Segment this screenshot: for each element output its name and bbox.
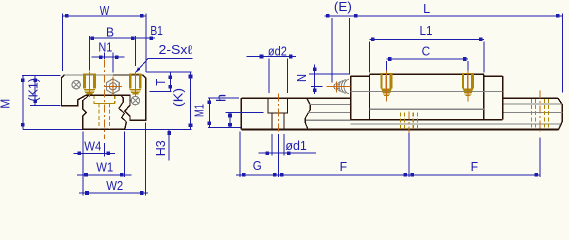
svg-text:(K1): (K1) — [26, 78, 40, 102]
svg-text:G: G — [253, 159, 262, 173]
svg-text:(K): (K) — [171, 88, 185, 107]
svg-text:C: C — [422, 45, 431, 59]
svg-text:F: F — [471, 160, 479, 174]
svg-text:N: N — [295, 74, 309, 82]
svg-text:h: h — [214, 94, 228, 102]
svg-text:H3: H3 — [154, 140, 168, 156]
svg-text:W: W — [100, 4, 110, 18]
svg-text:B: B — [106, 26, 114, 40]
svg-text:2-Sxℓ: 2-Sxℓ — [159, 43, 193, 57]
svg-text:(E): (E) — [334, 0, 352, 14]
svg-text:M: M — [0, 99, 13, 109]
svg-text:T: T — [154, 78, 168, 85]
svg-text:ød1: ød1 — [285, 139, 307, 153]
svg-text:B1: B1 — [150, 24, 163, 38]
svg-text:L: L — [423, 2, 430, 16]
svg-text:L1: L1 — [420, 24, 433, 38]
svg-text:W1: W1 — [96, 161, 113, 175]
svg-text:ød2: ød2 — [268, 45, 287, 59]
svg-text:M1: M1 — [193, 104, 207, 117]
svg-text:N1: N1 — [98, 40, 112, 54]
svg-text:F: F — [340, 160, 348, 174]
svg-text:W4: W4 — [84, 139, 101, 153]
svg-text:W2: W2 — [106, 179, 123, 193]
